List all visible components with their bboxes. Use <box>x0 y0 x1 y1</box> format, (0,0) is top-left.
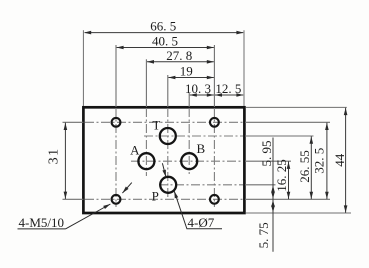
svg-text:19: 19 <box>180 64 193 79</box>
bolt hole bottom-right <box>210 195 219 204</box>
svg-text:P: P <box>152 188 159 203</box>
dimension 44 <box>332 108 348 213</box>
centerline port T row <box>144 135 314 137</box>
dimension 31 left <box>47 123 68 199</box>
dimension 5.75 bottom right <box>256 199 275 252</box>
port hole A <box>138 153 154 169</box>
svg-text:4-M5/10: 4-M5/10 <box>19 215 65 230</box>
port label P <box>152 188 159 203</box>
bolt hole top-left <box>112 118 121 127</box>
dimension 19 <box>168 64 214 80</box>
svg-text:5. 95: 5. 95 <box>259 141 274 167</box>
svg-text:27. 8: 27. 8 <box>166 48 192 63</box>
extension line top edge right <box>246 106 347 108</box>
leader second arrow at bolt hole <box>121 183 132 195</box>
centerline port T-P column <box>167 75 169 198</box>
extension line left plate edge top <box>82 30 84 106</box>
centerline right bolt column <box>213 45 215 207</box>
label 4-M5/10 <box>18 215 66 230</box>
dimension 27.8 <box>147 48 214 64</box>
dimension 26.55 <box>297 136 313 199</box>
centerline port A column <box>145 59 147 176</box>
svg-text:B: B <box>196 141 205 156</box>
centerline bottom bolt row <box>63 198 331 200</box>
svg-text:32. 5: 32. 5 <box>312 148 327 174</box>
svg-text:T: T <box>152 117 160 132</box>
plate outline <box>83 107 244 213</box>
dimension 32.5 <box>312 123 329 200</box>
extension line right plate edge top <box>243 30 245 106</box>
leader 4-M5/10 to bolt hole <box>66 202 112 228</box>
centerline port B column <box>188 93 190 175</box>
leader 4-diameter7 to port P <box>172 190 186 228</box>
centerline left bolt column <box>115 45 117 207</box>
centerline ports A-B row <box>131 160 291 162</box>
port hole T <box>160 128 176 144</box>
svg-text:12. 5: 12. 5 <box>215 81 241 96</box>
port label A <box>130 142 140 157</box>
dimension 66.5 <box>84 19 244 35</box>
dimension 16.25 <box>274 159 291 199</box>
centerline top bolt row <box>63 121 331 123</box>
dimension 12.5 <box>215 81 244 97</box>
port hole B <box>181 153 197 169</box>
svg-text:4-Ø7: 4-Ø7 <box>188 215 215 230</box>
dimension 10.3 <box>185 81 214 97</box>
svg-text:26. 55: 26. 55 <box>297 150 312 183</box>
svg-text:66. 5: 66. 5 <box>150 19 176 34</box>
dimension 40.5 <box>116 34 214 50</box>
extension line bottom edge right <box>246 212 351 214</box>
dimension 5.95 right <box>259 138 275 200</box>
svg-text:10. 3: 10. 3 <box>185 81 211 96</box>
svg-text:5. 75: 5. 75 <box>256 222 271 248</box>
svg-text:40. 5: 40. 5 <box>152 34 178 49</box>
centerline port P row <box>159 184 276 186</box>
bolt hole top-right <box>210 118 219 127</box>
svg-text:44: 44 <box>332 153 347 167</box>
svg-text:31: 31 <box>47 147 62 164</box>
label 4-diameter7 <box>187 215 223 230</box>
bolt hole bottom-left <box>112 195 121 204</box>
port label T <box>152 117 160 132</box>
svg-text:16. 25: 16. 25 <box>274 159 289 192</box>
leader second arrow at port P <box>162 163 167 177</box>
port hole P <box>160 177 176 193</box>
port label B <box>196 141 205 156</box>
svg-text:A: A <box>130 142 140 157</box>
